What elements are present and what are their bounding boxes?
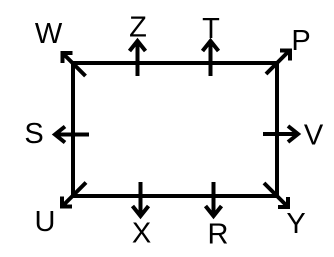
arrow Z (up arrow on top edge)	[130, 41, 146, 76]
arrow R (down arrow on bottom edge)	[206, 182, 222, 216]
arrow Y (diagonal down-right at bottom-right corner)	[264, 183, 288, 207]
arrow T (up arrow on top edge)	[203, 41, 219, 76]
rectangle WPYU	[73, 63, 277, 196]
svg-text:T: T	[202, 13, 220, 45]
svg-text:S: S	[24, 118, 43, 150]
arrow W (diagonal up-left at top-left corner)	[63, 53, 86, 76]
arrow U (diagonal down-left at bottom-left corner)	[62, 183, 86, 207]
arrow S (left arrow on left edge)	[55, 127, 89, 143]
svg-text:Z: Z	[129, 12, 147, 44]
arrow V (right arrow on right edge)	[263, 126, 298, 142]
arrow P (diagonal up-right at top-right corner)	[266, 51, 290, 75]
svg-text:W: W	[35, 18, 63, 50]
svg-text:Y: Y	[286, 208, 305, 240]
arrow X (down arrow on bottom edge)	[133, 182, 149, 216]
svg-text:P: P	[291, 25, 310, 57]
svg-text:R: R	[208, 219, 229, 251]
svg-text:X: X	[132, 218, 151, 250]
svg-text:U: U	[35, 206, 56, 238]
svg-text:V: V	[304, 120, 324, 152]
